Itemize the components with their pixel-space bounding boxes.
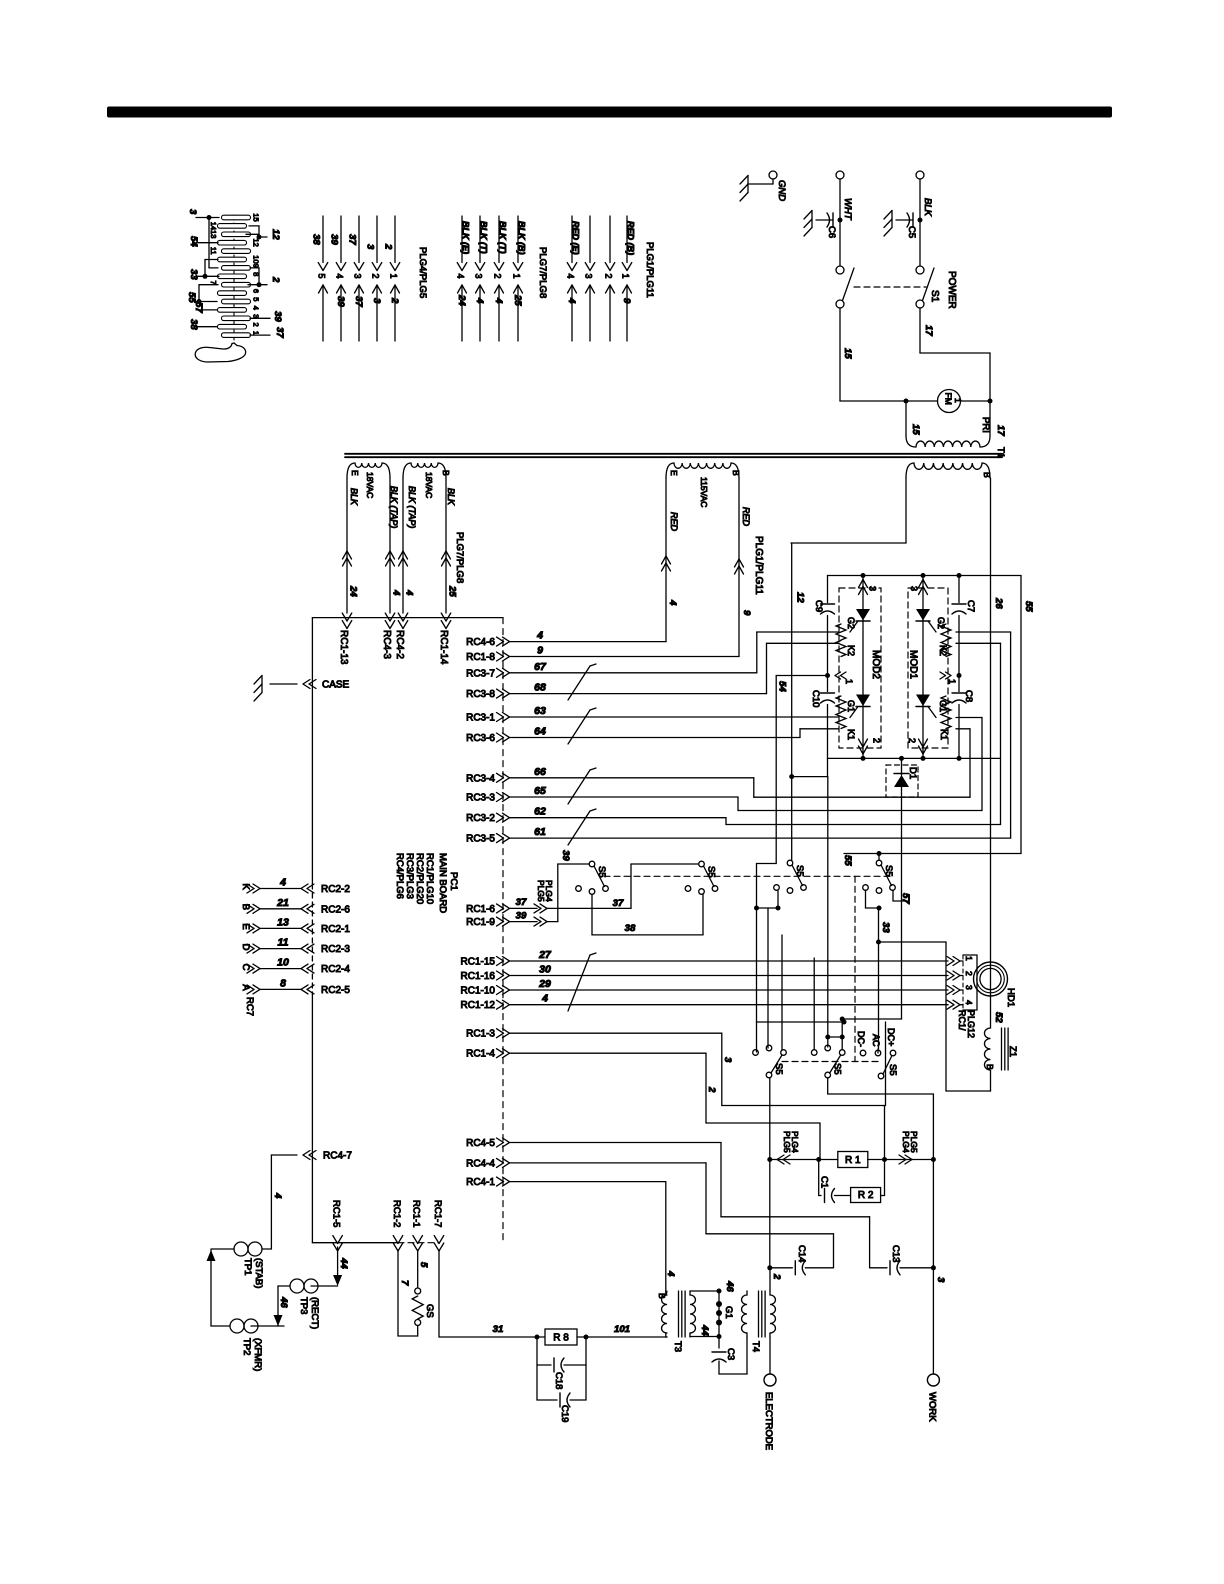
svg-text:E: E <box>669 470 679 476</box>
svg-text:RC1-3: RC1-3 <box>466 1029 495 1040</box>
svg-text:C1: C1 <box>819 1176 830 1188</box>
svg-text:RC1-15: RC1-15 <box>461 957 496 968</box>
svg-text:64: 64 <box>534 726 546 738</box>
svg-text:3: 3 <box>365 244 376 250</box>
svg-text:K1: K1 <box>846 729 856 740</box>
svg-text:RC2-4: RC2-4 <box>321 964 350 975</box>
svg-text:3: 3 <box>474 274 484 279</box>
svg-text:29: 29 <box>538 978 551 990</box>
svg-text:RC1-9: RC1-9 <box>466 917 495 928</box>
svg-text:62: 62 <box>534 806 546 818</box>
svg-text:RC1-6: RC1-6 <box>466 904 495 915</box>
svg-text:14: 14 <box>209 222 218 230</box>
svg-text:RC2-1: RC2-1 <box>321 924 350 935</box>
svg-text:3: 3 <box>935 1277 946 1283</box>
svg-text:39: 39 <box>335 296 346 307</box>
svg-text:BLK: BLK <box>922 198 933 217</box>
svg-text:D1: D1 <box>907 767 918 779</box>
svg-text:RC3-6: RC3-6 <box>466 733 495 744</box>
svg-text:R 1: R 1 <box>845 1155 861 1166</box>
svg-text:DC-: DC- <box>856 1031 866 1047</box>
svg-text:46: 46 <box>724 1280 735 1292</box>
svg-text:TP3: TP3 <box>298 1297 309 1314</box>
svg-text:RED: RED <box>669 512 679 532</box>
svg-text:GS: GS <box>424 1304 435 1318</box>
svg-text:HD1: HD1 <box>1005 988 1016 1007</box>
svg-text:WORK: WORK <box>927 1392 938 1422</box>
svg-text:RC3-4: RC3-4 <box>466 773 495 784</box>
svg-text:CASE: CASE <box>322 680 350 691</box>
svg-text:RC1-2: RC1-2 <box>391 1200 402 1227</box>
svg-text:4: 4 <box>335 274 345 279</box>
svg-text:9: 9 <box>621 298 632 304</box>
svg-text:66: 66 <box>534 766 546 778</box>
svg-text:46: 46 <box>278 1296 289 1308</box>
svg-text:RED (B): RED (B) <box>626 221 636 255</box>
svg-text:7: 7 <box>399 1280 410 1286</box>
svg-text:54: 54 <box>188 236 199 247</box>
svg-text:55: 55 <box>1023 601 1034 612</box>
svg-text:8: 8 <box>280 977 286 989</box>
svg-text:2: 2 <box>383 243 394 250</box>
svg-text:(XFMR): (XFMR) <box>252 1338 263 1371</box>
svg-text:4: 4 <box>566 274 576 279</box>
svg-text:5: 5 <box>317 274 327 279</box>
svg-text:RC4/PLG6: RC4/PLG6 <box>394 853 405 899</box>
svg-text:15: 15 <box>842 348 853 359</box>
svg-text:1: 1 <box>252 331 261 335</box>
svg-text:39: 39 <box>560 850 571 861</box>
svg-text:4: 4 <box>541 993 548 1005</box>
svg-text:RC3-3: RC3-3 <box>466 793 495 804</box>
svg-text:(STAB): (STAB) <box>253 1258 264 1288</box>
svg-text:9: 9 <box>537 645 543 657</box>
svg-text:R 8: R 8 <box>553 1333 569 1344</box>
svg-text:38: 38 <box>625 923 636 934</box>
svg-text:RC4-6: RC4-6 <box>466 637 495 648</box>
svg-text:3: 3 <box>964 985 974 990</box>
svg-text:WHT: WHT <box>842 198 853 221</box>
svg-text:1: 1 <box>964 956 974 961</box>
svg-text:1: 1 <box>621 274 631 279</box>
svg-text:4: 4 <box>272 1192 283 1199</box>
svg-text:PLG12: PLG12 <box>966 1010 976 1038</box>
svg-text:RC1-1: RC1-1 <box>411 1200 422 1227</box>
svg-text:RC7: RC7 <box>244 997 255 1016</box>
svg-text:PLG7/PLG8: PLG7/PLG8 <box>454 532 465 583</box>
svg-text:RC1-16: RC1-16 <box>461 971 496 982</box>
svg-text:3: 3 <box>909 586 919 591</box>
svg-text:PLG4/PLG5: PLG4/PLG5 <box>417 247 428 298</box>
svg-text:PC1: PC1 <box>448 872 459 890</box>
svg-text:11: 11 <box>209 247 218 255</box>
svg-text:POWER: POWER <box>946 271 957 309</box>
svg-text:C8: C8 <box>963 690 974 702</box>
svg-text:BLK (T): BLK (T) <box>498 221 508 254</box>
svg-text:37: 37 <box>516 897 527 908</box>
svg-text:RC1/: RC1/ <box>957 1010 967 1031</box>
svg-text:RC3-8: RC3-8 <box>466 689 495 700</box>
svg-text:1: 1 <box>947 679 957 684</box>
svg-text:5: 5 <box>418 1262 429 1268</box>
svg-text:G1: G1 <box>846 700 856 712</box>
svg-text:4: 4 <box>404 589 415 596</box>
svg-text:115VAC: 115VAC <box>699 477 709 507</box>
svg-text:2: 2 <box>604 274 614 279</box>
svg-text:33: 33 <box>188 269 199 280</box>
svg-text:RC4-3: RC4-3 <box>381 630 392 659</box>
svg-text:1: 1 <box>389 274 399 279</box>
svg-text:4: 4 <box>536 630 543 642</box>
svg-text:RC1-13: RC1-13 <box>338 630 349 665</box>
svg-text:BLK (B): BLK (B) <box>517 221 527 255</box>
svg-text:RC3-7: RC3-7 <box>466 668 495 679</box>
svg-text:DC+: DC+ <box>886 1028 896 1046</box>
svg-text:37: 37 <box>274 327 285 338</box>
svg-text:RC4-5: RC4-5 <box>466 1138 495 1149</box>
svg-text:2: 2 <box>771 1273 782 1280</box>
svg-text:PLG4: PLG4 <box>544 880 554 902</box>
svg-text:2: 2 <box>964 971 974 976</box>
svg-text:63: 63 <box>534 705 546 717</box>
svg-text:4: 4 <box>667 599 678 606</box>
svg-text:30: 30 <box>539 964 551 976</box>
svg-text:1: 1 <box>512 274 522 279</box>
svg-text:21: 21 <box>276 897 289 909</box>
svg-text:55: 55 <box>842 855 853 866</box>
svg-text:12: 12 <box>795 592 806 603</box>
svg-text:C19: C19 <box>559 1405 570 1422</box>
svg-text:BLK: BLK <box>349 488 359 506</box>
svg-text:2: 2 <box>252 323 261 327</box>
svg-text:C10: C10 <box>810 690 821 707</box>
svg-text:B: B <box>441 470 451 476</box>
svg-text:1: 1 <box>844 679 854 684</box>
svg-text:PRI: PRI <box>980 417 991 433</box>
svg-text:RC3/PLG3: RC3/PLG3 <box>404 853 415 899</box>
svg-text:25: 25 <box>512 294 523 306</box>
svg-text:3: 3 <box>252 314 261 318</box>
svg-text:3: 3 <box>868 586 878 591</box>
svg-text:C13: C13 <box>890 1245 901 1262</box>
svg-text:13: 13 <box>277 916 289 928</box>
svg-text:4: 4 <box>252 306 261 310</box>
svg-text:4: 4 <box>474 297 485 304</box>
svg-text:RC1-10: RC1-10 <box>461 986 496 997</box>
svg-text:K1: K1 <box>939 729 949 740</box>
svg-text:RC3-5: RC3-5 <box>466 834 495 845</box>
svg-text:C: C <box>240 964 251 971</box>
svg-text:RC1-8: RC1-8 <box>466 652 495 663</box>
svg-text:2: 2 <box>706 1086 717 1093</box>
svg-text:38: 38 <box>188 319 199 330</box>
svg-text:2: 2 <box>371 274 381 279</box>
svg-text:TP1: TP1 <box>242 1258 253 1275</box>
svg-text:RC2/PLG20: RC2/PLG20 <box>414 853 425 904</box>
svg-text:RC2-5: RC2-5 <box>321 985 350 996</box>
svg-text:10: 10 <box>277 957 289 969</box>
svg-text:C3: C3 <box>725 1348 736 1360</box>
svg-text:4: 4 <box>665 1270 676 1277</box>
svg-text:TP2: TP2 <box>241 1338 252 1355</box>
svg-text:6: 6 <box>252 289 261 293</box>
svg-text:15: 15 <box>252 213 261 221</box>
svg-text:39: 39 <box>272 311 283 322</box>
svg-text:3: 3 <box>353 274 363 279</box>
svg-text:S5: S5 <box>832 1063 843 1075</box>
svg-text:K2: K2 <box>846 645 856 656</box>
svg-text:BLK (TAP): BLK (TAP) <box>407 486 417 528</box>
svg-text:101: 101 <box>614 1324 630 1335</box>
svg-text:2: 2 <box>872 738 882 743</box>
svg-text:RC1/PLG10: RC1/PLG10 <box>424 853 435 904</box>
svg-text:FM: FM <box>944 393 954 405</box>
svg-text:11: 11 <box>278 937 289 949</box>
svg-text:S5: S5 <box>706 866 717 878</box>
svg-text:G2: G2 <box>936 617 946 629</box>
svg-text:PLG7/PLG8: PLG7/PLG8 <box>537 247 548 298</box>
svg-text:AC: AC <box>871 1034 881 1047</box>
svg-text:B: B <box>985 1064 995 1070</box>
svg-text:C5: C5 <box>906 226 917 238</box>
svg-text:D: D <box>240 944 251 951</box>
svg-text:12: 12 <box>252 239 261 247</box>
svg-text:B: B <box>240 904 251 910</box>
svg-text:G2: G2 <box>846 617 856 629</box>
svg-text:K: K <box>240 884 251 891</box>
svg-text:RC4-1: RC4-1 <box>466 1177 495 1188</box>
svg-text:44: 44 <box>699 1324 710 1336</box>
svg-text:S5: S5 <box>596 866 607 878</box>
svg-text:BLK (T): BLK (T) <box>479 221 489 254</box>
svg-text:33: 33 <box>880 922 891 933</box>
svg-text:3: 3 <box>187 209 198 215</box>
svg-text:13: 13 <box>209 230 218 238</box>
svg-text:5: 5 <box>252 297 261 301</box>
svg-text:67: 67 <box>534 661 547 673</box>
svg-text:MOD1: MOD1 <box>908 650 919 679</box>
svg-text:9: 9 <box>252 264 261 268</box>
svg-text:ELECTRODE: ELECTRODE <box>763 1392 774 1450</box>
svg-text:52: 52 <box>993 1012 1004 1023</box>
svg-text:RC1-14: RC1-14 <box>438 630 449 665</box>
svg-text:57: 57 <box>193 302 204 313</box>
svg-text:2: 2 <box>493 274 503 279</box>
svg-text:7: 7 <box>209 281 218 285</box>
svg-text:27: 27 <box>538 949 552 961</box>
svg-text:61: 61 <box>534 826 546 838</box>
svg-text:37: 37 <box>347 234 358 245</box>
svg-text:RC2-6: RC2-6 <box>321 904 350 915</box>
svg-text:S1: S1 <box>929 290 940 303</box>
svg-text:RC1-4: RC1-4 <box>466 1049 495 1060</box>
svg-text:4: 4 <box>566 297 577 304</box>
svg-text:RC1-12: RC1-12 <box>461 1000 496 1011</box>
svg-text:24: 24 <box>456 294 467 306</box>
svg-text:E: E <box>240 923 251 929</box>
svg-text:2: 2 <box>389 297 400 304</box>
svg-text:65: 65 <box>534 785 546 797</box>
svg-text:68: 68 <box>534 682 546 694</box>
svg-text:C6: C6 <box>826 226 837 238</box>
svg-text:(RECT): (RECT) <box>309 1297 320 1329</box>
svg-text:17: 17 <box>923 325 934 336</box>
svg-text:PLG5: PLG5 <box>909 1131 919 1153</box>
svg-text:PLG1/PLG11: PLG1/PLG11 <box>753 536 764 595</box>
svg-text:4: 4 <box>279 877 286 889</box>
svg-text:3: 3 <box>371 298 382 304</box>
svg-text:MOD2: MOD2 <box>870 650 881 679</box>
svg-text:18VAC: 18VAC <box>365 472 375 498</box>
svg-text:4: 4 <box>391 589 402 596</box>
svg-text:10: 10 <box>252 255 261 263</box>
svg-text:RC2-2: RC2-2 <box>321 884 350 895</box>
svg-text:S5: S5 <box>883 865 894 877</box>
svg-text:C14: C14 <box>796 1245 807 1262</box>
svg-text:C7: C7 <box>965 600 976 612</box>
svg-text:39: 39 <box>516 911 527 922</box>
svg-text:RC4-4: RC4-4 <box>466 1158 495 1169</box>
svg-text:RC3-2: RC3-2 <box>466 813 495 824</box>
svg-text:54: 54 <box>777 681 788 692</box>
svg-text:38: 38 <box>311 234 322 245</box>
svg-text:C9: C9 <box>813 600 824 612</box>
svg-text:B: B <box>982 472 992 478</box>
svg-text:39: 39 <box>329 234 340 245</box>
svg-text:S5: S5 <box>773 1063 784 1075</box>
svg-text:37: 37 <box>613 898 624 909</box>
svg-text:PLG4: PLG4 <box>790 1131 800 1153</box>
svg-text:RC4-7: RC4-7 <box>323 1151 352 1162</box>
svg-text:B: B <box>731 470 741 476</box>
svg-text:4: 4 <box>456 274 466 279</box>
svg-text:K2: K2 <box>938 645 948 656</box>
svg-text:MAIN BOARD: MAIN BOARD <box>437 853 448 913</box>
svg-text:E: E <box>350 470 360 476</box>
svg-text:2: 2 <box>270 276 281 283</box>
svg-text:RC3-1: RC3-1 <box>466 713 495 724</box>
svg-text:44: 44 <box>338 1257 349 1269</box>
svg-text:3: 3 <box>584 274 594 279</box>
svg-text:G1: G1 <box>938 700 948 712</box>
svg-text:26: 26 <box>993 597 1004 609</box>
svg-text:RC1-7: RC1-7 <box>432 1200 443 1227</box>
svg-text:S5: S5 <box>887 1064 898 1076</box>
svg-text:BLK (E): BLK (E) <box>461 221 471 254</box>
svg-text:18VAC: 18VAC <box>424 472 434 498</box>
svg-text:57: 57 <box>900 893 911 904</box>
svg-text:4: 4 <box>964 1000 974 1005</box>
svg-text:T4: T4 <box>750 1341 761 1352</box>
svg-text:3: 3 <box>722 1057 733 1063</box>
svg-text:4: 4 <box>493 297 504 304</box>
svg-text:15: 15 <box>910 424 921 435</box>
svg-text:A: A <box>240 984 251 991</box>
svg-text:C18: C18 <box>553 1372 564 1389</box>
svg-text:RC2-3: RC2-3 <box>321 944 350 955</box>
svg-text:Z1: Z1 <box>1007 1046 1018 1057</box>
svg-text:PLG1/PLG11: PLG1/PLG11 <box>644 242 655 298</box>
svg-text:G1: G1 <box>723 1306 734 1319</box>
svg-text:R 2: R 2 <box>858 1190 874 1201</box>
svg-text:31: 31 <box>493 1324 504 1335</box>
svg-text:24: 24 <box>348 585 359 597</box>
svg-text:9: 9 <box>741 610 752 616</box>
svg-text:RC1-5: RC1-5 <box>331 1200 342 1227</box>
svg-text:RED: RED <box>741 507 751 527</box>
svg-text:RC4-2: RC4-2 <box>394 630 405 659</box>
svg-text:37: 37 <box>353 296 364 307</box>
svg-text:12: 12 <box>270 229 281 240</box>
svg-text:S5: S5 <box>794 865 805 877</box>
svg-text:GND: GND <box>776 180 787 201</box>
svg-text:25: 25 <box>447 585 458 597</box>
svg-text:T3: T3 <box>672 1341 683 1352</box>
svg-text:17: 17 <box>995 425 1006 436</box>
svg-text:RED (E): RED (E) <box>571 221 581 255</box>
svg-text:BLK: BLK <box>446 488 456 506</box>
svg-text:2: 2 <box>907 738 917 743</box>
